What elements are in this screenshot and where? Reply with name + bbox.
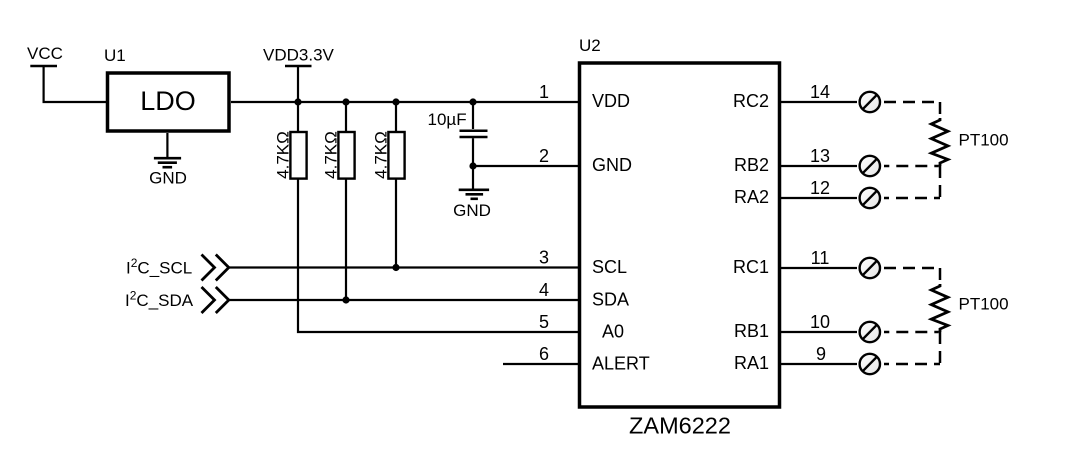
wire VCC to U1 input: [44, 66, 106, 102]
svg-text:5: 5: [539, 312, 549, 332]
svg-text:U1: U1: [104, 46, 126, 65]
svg-text:SCL: SCL: [592, 257, 627, 277]
wire U2 RC2 pin 14 to terminal: [781, 101, 857, 103]
node junction SDA/R2: [342, 296, 349, 303]
svg-text:U2: U2: [579, 36, 601, 55]
terminal pin 14: [860, 92, 880, 112]
op-amp U1 LDO box: [108, 73, 230, 131]
resistor R3 4.7K: [372, 102, 405, 179]
svg-text:LDO: LDO: [140, 86, 196, 116]
wire C1 bottom to U2 GND pin 2: [473, 165, 578, 167]
svg-text:13: 13: [810, 146, 830, 166]
wire dashed terminal 13 to RTD1 bottom: [884, 165, 939, 168]
wire dashed terminal 10 to RTD2 bottom: [884, 331, 939, 334]
power flag VCC: [27, 44, 63, 66]
svg-text:PT100: PT100: [959, 131, 1009, 150]
wire U2 RB2 pin 13 to terminal: [781, 165, 857, 167]
svg-text:3: 3: [539, 248, 549, 268]
svg-text:VDD: VDD: [592, 91, 630, 111]
capacitor C1 10uF: [428, 102, 488, 166]
svg-text:10: 10: [810, 312, 830, 332]
svg-text:11: 11: [811, 248, 830, 268]
resistor R1 4.7K: [274, 102, 307, 179]
wire dashed terminal 14 to RTD1 top: [884, 102, 940, 118]
ground under C1: [453, 166, 491, 220]
svg-text:I2C_SDA: I2C_SDA: [125, 289, 194, 311]
IC U2 ZAM6222 box: [580, 63, 780, 439]
node junction on rail at R3: [392, 98, 399, 105]
resistor R2 4.7K: [322, 102, 355, 179]
svg-text:RA1: RA1: [734, 353, 769, 373]
wire R1 bottom to U2 A0 pin 5: [298, 179, 578, 332]
node junction at C1 bottom: [469, 162, 476, 169]
svg-text:14: 14: [810, 82, 830, 102]
svg-text:12: 12: [810, 178, 830, 198]
wire U2 RA1 pin 9 to terminal: [781, 363, 857, 365]
wire R3 bottom to SCL net: [395, 179, 397, 268]
wire dashed terminal 9 to RTD2 bottom: [939, 332, 942, 364]
wire U2 RA2 pin 12 to terminal: [781, 197, 857, 199]
svg-text:VDD3.3V: VDD3.3V: [263, 46, 335, 65]
svg-text:1: 1: [539, 82, 549, 102]
svg-text:ALERT: ALERT: [592, 354, 650, 374]
wire U2 RB1 pin 10 to terminal: [781, 331, 857, 333]
svg-text:I2C_SCL: I2C_SCL: [126, 256, 192, 278]
terminal pin 11: [860, 258, 880, 278]
svg-text:SDA: SDA: [592, 290, 629, 310]
svg-text:GND: GND: [149, 169, 187, 188]
wire R2 bottom to SDA net: [345, 179, 347, 300]
power flag VDD3.3V: [263, 46, 335, 67]
node junction on rail at R2: [342, 98, 349, 105]
svg-text:VCC: VCC: [27, 44, 63, 63]
svg-text:A0: A0: [602, 322, 624, 342]
svg-text:10µF: 10µF: [428, 110, 467, 129]
svg-text:2: 2: [539, 146, 549, 166]
terminal pin 12: [860, 188, 880, 208]
resistor RTD2 PT100: [931, 284, 1008, 332]
terminal pin 10: [860, 322, 880, 342]
svg-text:RC2: RC2: [733, 91, 769, 111]
wire U1 output to U2 VDD pin 1: [231, 101, 578, 103]
svg-text:RA2: RA2: [734, 187, 769, 207]
wire SDA net to U2 pin 4: [229, 299, 578, 301]
port I2C_SDA chevron: [202, 287, 229, 313]
resistor RTD1 PT100: [931, 118, 1008, 166]
wire dashed terminal 11 to RTD2 top: [884, 268, 940, 284]
svg-text:4.7KΩ: 4.7KΩ: [372, 131, 391, 179]
terminal pin 13: [860, 156, 880, 176]
svg-text:RB1: RB1: [734, 321, 769, 341]
terminal pin 9: [860, 354, 880, 374]
wire dashed terminal 12 to RTD1 bottom: [939, 166, 942, 198]
node junction on rail at R1: [294, 98, 301, 105]
svg-text:6: 6: [539, 344, 549, 364]
node junction on rail at C1: [469, 98, 476, 105]
wire VDD3.3V flag to rail: [297, 66, 299, 102]
wire ALERT stub to U2 pin 6: [503, 363, 578, 365]
ground under U1: [149, 133, 187, 188]
svg-text:9: 9: [816, 344, 826, 364]
svg-text:4: 4: [539, 280, 549, 300]
port I2C_SCL chevron: [202, 255, 229, 281]
svg-text:RB2: RB2: [734, 155, 769, 175]
svg-text:4.7KΩ: 4.7KΩ: [274, 131, 293, 179]
wire SCL net to U2 pin 3: [229, 266, 578, 268]
svg-text:PT100: PT100: [959, 295, 1009, 314]
wire U2 RC1 pin 11 to terminal: [781, 267, 857, 269]
node junction SCL/R3: [392, 264, 399, 271]
svg-text:GND: GND: [592, 155, 632, 175]
svg-text:4.7KΩ: 4.7KΩ: [322, 131, 341, 179]
svg-text:ZAM6222: ZAM6222: [629, 413, 731, 439]
svg-text:GND: GND: [453, 201, 491, 220]
svg-text:RC1: RC1: [733, 257, 769, 277]
